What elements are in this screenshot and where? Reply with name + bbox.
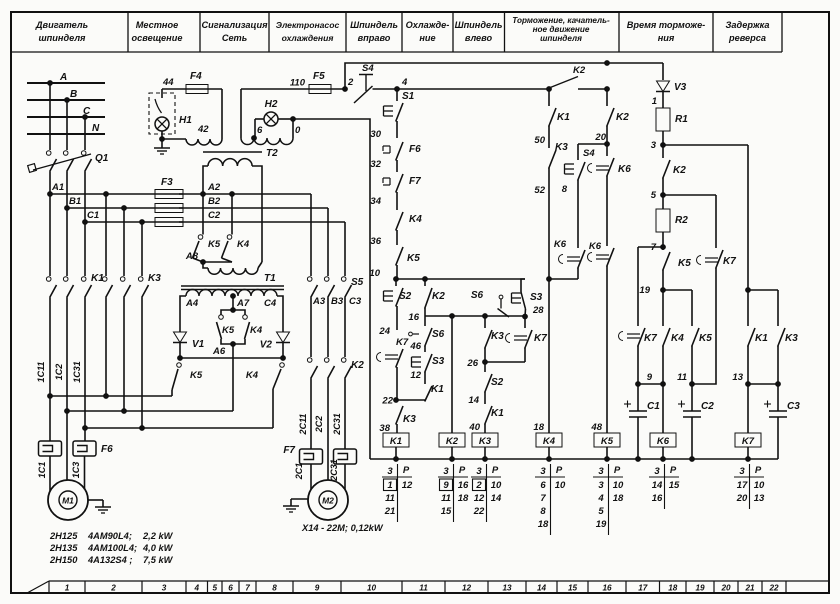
svg-text:P: P (614, 465, 621, 476)
wire to heater 2 (84, 428, 86, 441)
contact K2 timer (662, 145, 664, 158)
svg-text:V1: V1 (192, 339, 205, 350)
bus A1 (50, 193, 183, 195)
contact S2 start (383, 291, 385, 301)
svg-text:влево: влево (465, 33, 493, 43)
svg-text:вправо: вправо (358, 33, 391, 43)
svg-text:K4: K4 (409, 214, 422, 225)
svg-text:22: 22 (381, 396, 393, 407)
contact S2 cooling stop (484, 362, 486, 372)
node K4 feed (547, 277, 552, 282)
node H1 bottom (160, 137, 165, 142)
svg-text:18: 18 (538, 519, 549, 530)
svg-text:3: 3 (387, 466, 393, 477)
svg-text:14: 14 (537, 584, 547, 593)
svg-text:4АМ100L4;: 4АМ100L4; (87, 543, 137, 553)
svg-text:11: 11 (441, 493, 451, 504)
svg-text:22: 22 (768, 584, 779, 593)
svg-text:16: 16 (408, 312, 419, 323)
wire into lamp box (161, 89, 163, 98)
svg-text:K2: K2 (616, 112, 629, 123)
svg-text:C4: C4 (264, 298, 277, 309)
contact K4 timer (662, 290, 664, 326)
svg-text:охлаждения: охлаждения (282, 33, 334, 43)
top control bus (345, 63, 663, 89)
svg-text:8: 8 (562, 184, 568, 195)
svg-text:T2: T2 (266, 148, 278, 159)
svg-text:18: 18 (533, 422, 544, 433)
svg-text:F4: F4 (190, 71, 202, 82)
svg-text:K6: K6 (657, 436, 670, 447)
lamp H1 (155, 117, 169, 131)
svg-text:K2: K2 (446, 436, 459, 447)
contact F7 release (383, 177, 390, 179)
svg-text:1С31: 1С31 (72, 361, 82, 383)
svg-text:B2: B2 (208, 196, 221, 207)
contact K1 brake chain (548, 89, 550, 106)
svg-text:Задержка: Задержка (726, 20, 770, 30)
wire K3-A drop (105, 194, 107, 276)
svg-text:K4: K4 (543, 436, 556, 447)
contactor K2 poles (307, 358, 312, 363)
svg-text:2,2 kW: 2,2 kW (142, 531, 174, 541)
motor M2 (308, 480, 348, 520)
svg-text:K3: K3 (479, 436, 492, 447)
bus C1 (85, 221, 183, 223)
svg-text:K3: K3 (403, 414, 416, 425)
svg-text:6: 6 (540, 480, 546, 491)
svg-text:Торможение, качатель-: Торможение, качатель- (512, 16, 610, 25)
svg-text:48: 48 (590, 422, 602, 433)
svg-text:Сеть: Сеть (222, 33, 247, 43)
svg-text:K3: K3 (491, 331, 504, 342)
svg-text:Шпиндель: Шпиндель (455, 20, 503, 30)
transformer T2 winding 42 (186, 139, 222, 145)
resistor R1 (656, 108, 670, 131)
svg-text:4,0 kW: 4,0 kW (142, 543, 174, 553)
wire K1-C drop (84, 222, 86, 276)
svg-text:C1: C1 (87, 210, 99, 221)
svg-text:5: 5 (598, 506, 604, 517)
node 20 (605, 142, 610, 147)
svg-text:K3: K3 (785, 333, 798, 344)
svg-text:14: 14 (652, 480, 663, 491)
svg-text:P: P (556, 465, 563, 476)
svg-text:A7: A7 (236, 298, 250, 309)
phase line C (27, 116, 105, 118)
svg-text:11: 11 (385, 493, 395, 504)
wire node 7 branch (638, 246, 663, 248)
svg-text:B: B (70, 89, 77, 100)
svg-text:19: 19 (596, 519, 607, 530)
svg-text:V3: V3 (674, 82, 687, 93)
node 7 (661, 245, 666, 250)
svg-text:S4: S4 (583, 148, 595, 159)
svg-text:F7: F7 (409, 176, 421, 187)
svg-text:1С3: 1С3 (71, 462, 81, 479)
wire line 10 (396, 278, 525, 280)
svg-text:P: P (755, 465, 762, 476)
ground H1 (161, 139, 163, 148)
svg-text:F5: F5 (313, 71, 325, 82)
node A7 centre tap (231, 294, 236, 299)
contact S4 aux (564, 164, 566, 174)
svg-text:S6: S6 (471, 290, 484, 301)
wire top bus corner (662, 63, 664, 80)
svg-text:3: 3 (654, 466, 660, 477)
svg-text:C1: C1 (647, 401, 660, 412)
wire node 3 branch (663, 144, 748, 146)
overload heater F6 element 1 (39, 441, 62, 456)
svg-text:Х14 - 22М; 0,12kW: Х14 - 22М; 0,12kW (301, 523, 384, 533)
capacitor C1 (629, 410, 647, 412)
bottom common bus (370, 458, 778, 460)
svg-text:8: 8 (272, 584, 277, 593)
node B tap (65, 98, 70, 103)
diode V1 (174, 332, 187, 343)
svg-text:K7: K7 (723, 256, 736, 267)
contact K4 selector (227, 235, 232, 240)
node 19 (661, 288, 666, 293)
svg-text:F7: F7 (283, 445, 295, 456)
svg-text:1: 1 (387, 480, 392, 491)
wire C2 to S5 (344, 222, 346, 276)
svg-text:4А132S4 ;: 4А132S4 ; (87, 555, 132, 565)
svg-text:K6: K6 (554, 239, 567, 250)
svg-text:16: 16 (458, 480, 469, 491)
svg-text:S5: S5 (351, 277, 364, 288)
svg-text:21: 21 (384, 506, 396, 517)
contact K7 timer (619, 332, 624, 341)
overload heater F6 element 2 (73, 441, 96, 456)
fuse F4 (186, 85, 208, 94)
contact K4 tap select (233, 310, 245, 315)
contact F6 release (383, 145, 390, 147)
wire heater 2 to M1 (84, 456, 86, 490)
svg-text:S4: S4 (362, 63, 374, 74)
contact K5 aux (396, 247, 403, 266)
svg-text:3: 3 (443, 466, 449, 477)
contact S6 stop lower (409, 332, 413, 336)
svg-text:K1: K1 (390, 436, 402, 447)
svg-text:3: 3 (598, 480, 604, 491)
svg-text:11: 11 (677, 372, 687, 383)
svg-text:18: 18 (613, 493, 624, 504)
svg-text:12: 12 (402, 480, 413, 491)
node A tap (48, 81, 53, 86)
contact K7 aux spindle (377, 353, 382, 362)
fuse F5 (309, 85, 331, 94)
svg-text:Местное: Местное (136, 20, 178, 30)
contact K3 reverse (778, 328, 785, 347)
svg-text:17: 17 (737, 480, 748, 491)
svg-text:13: 13 (732, 372, 743, 383)
contact K3 interlock (396, 406, 403, 425)
wire R1 to node 3 (662, 131, 664, 145)
transformer T1 primary (208, 268, 258, 274)
contact S1 (383, 106, 385, 116)
svg-text:P: P (670, 465, 677, 476)
svg-text:K7: K7 (534, 333, 547, 344)
wire node 5 branch (663, 194, 716, 196)
wire K6 coil drop (662, 384, 664, 433)
svg-text:K5: K5 (678, 258, 691, 269)
node 4 (395, 87, 400, 92)
contact S3 jog (411, 357, 413, 367)
svg-text:K6: K6 (589, 241, 602, 252)
svg-text:2С11: 2С11 (298, 414, 308, 436)
svg-text:S6: S6 (432, 329, 445, 340)
svg-text:R2: R2 (675, 215, 688, 226)
svg-text:A8: A8 (185, 251, 199, 262)
svg-text:2Н150: 2Н150 (49, 555, 78, 565)
svg-text:C3: C3 (787, 401, 800, 412)
svg-text:17: 17 (638, 584, 648, 593)
wire B2 to S5 (327, 208, 329, 276)
svg-text:10: 10 (367, 584, 377, 593)
overload heater F7 element 1 (300, 449, 323, 464)
svg-text:2С31: 2С31 (329, 459, 339, 482)
svg-text:10: 10 (754, 480, 765, 491)
contact K4 braking (280, 363, 285, 368)
contact K3 brake chain (549, 150, 556, 169)
svg-text:3: 3 (540, 466, 546, 477)
svg-text:K5: K5 (699, 333, 712, 344)
wire coil K4 to bus (548, 447, 550, 459)
contact K6 left (559, 255, 564, 264)
svg-text:M2: M2 (322, 496, 334, 506)
svg-text:36: 36 (370, 236, 381, 247)
svg-text:H2: H2 (265, 99, 278, 110)
svg-text:10: 10 (369, 268, 380, 279)
svg-text:K7: K7 (644, 333, 657, 344)
svg-text:13: 13 (754, 493, 765, 504)
svg-text:K3: K3 (555, 142, 568, 153)
svg-text:40: 40 (468, 422, 480, 433)
svg-text:шпинделя: шпинделя (540, 34, 582, 43)
main switch Q1 (46, 151, 51, 156)
overload heater F7 element 2 (334, 449, 357, 464)
wire to heater 1 (49, 396, 51, 441)
svg-text:K5: K5 (190, 370, 203, 381)
relay coil K7 (735, 433, 761, 447)
svg-text:K5: K5 (601, 436, 614, 447)
node 10 (394, 277, 399, 282)
svg-text:5: 5 (651, 190, 657, 201)
svg-text:реверса: реверса (728, 33, 766, 43)
svg-text:1: 1 (652, 96, 657, 107)
fuse block F3 (155, 190, 183, 199)
svg-text:6: 6 (257, 125, 263, 136)
svg-text:46: 46 (409, 341, 421, 352)
svg-text:S1: S1 (402, 91, 415, 102)
line 16 (425, 315, 525, 317)
wires K2 to heaters (310, 379, 312, 450)
svg-text:50: 50 (534, 135, 545, 146)
phase line A (27, 82, 105, 84)
wire coil K1 to bus (395, 447, 397, 459)
svg-text:26: 26 (466, 358, 478, 369)
diode V2 (277, 332, 290, 343)
svg-text:M1: M1 (62, 496, 74, 506)
phase line B (27, 99, 105, 101)
node 26 (483, 360, 488, 365)
wire common 0 rail (293, 119, 370, 459)
svg-text:34: 34 (370, 196, 381, 207)
wire coil K7 to bus (747, 447, 749, 459)
transformer T2 primary (208, 159, 252, 166)
node 13 (746, 382, 751, 387)
bottom zone-number strip (49, 580, 829, 582)
svg-text:A3: A3 (312, 296, 326, 307)
svg-text:P: P (459, 465, 466, 476)
transformer T2 winding 6-0 (241, 138, 293, 145)
svg-text:H1: H1 (179, 115, 192, 126)
svg-text:ния: ния (658, 33, 675, 43)
node 13 feed (746, 288, 751, 293)
capacitor C2 (683, 410, 701, 412)
svg-text:18: 18 (668, 584, 678, 593)
svg-text:A1: A1 (51, 182, 64, 193)
wire F4 to winding 42 (221, 89, 223, 139)
svg-text:19: 19 (695, 584, 705, 593)
wire coil K6 to bus (662, 447, 664, 459)
svg-text:24: 24 (378, 326, 390, 337)
wire C4 to diode V2 (282, 302, 284, 332)
wire 44 (162, 88, 222, 90)
bus C2 (179, 221, 345, 223)
contact K7 charge (697, 256, 701, 265)
svg-text:28: 28 (532, 305, 544, 316)
wire A6 (179, 343, 181, 359)
svg-text:9: 9 (443, 480, 449, 491)
lamp switch blade (155, 99, 162, 113)
svg-text:A6: A6 (212, 346, 226, 357)
svg-text:K4: K4 (246, 370, 259, 381)
svg-text:30: 30 (370, 129, 381, 140)
contactor K3 poles (102, 277, 107, 282)
svg-text:7: 7 (245, 584, 250, 593)
resistor R2 (656, 209, 670, 232)
contact K1 interlock (425, 386, 432, 402)
svg-text:K2: K2 (432, 291, 445, 302)
svg-text:K5: K5 (407, 253, 420, 264)
svg-text:3: 3 (651, 140, 657, 151)
contact K5 braking (177, 363, 182, 368)
svg-text:A4: A4 (185, 298, 199, 309)
svg-text:S3: S3 (432, 356, 445, 367)
svg-text:B3: B3 (331, 296, 344, 307)
relay coil K6 (650, 433, 676, 447)
contact K2 aux seal (424, 279, 426, 286)
svg-text:19: 19 (639, 285, 650, 296)
wire node4 to K2 (397, 88, 549, 90)
svg-text:32: 32 (370, 159, 381, 170)
svg-text:14: 14 (491, 493, 502, 504)
node 6 tap (252, 136, 257, 141)
svg-text:Q1: Q1 (95, 153, 109, 164)
relay coil K2 (439, 433, 465, 447)
contact K6 right lower (588, 253, 593, 262)
wire 26 to K7 brake (485, 361, 525, 363)
contactor K1 poles (46, 277, 51, 282)
svg-text:A: A (59, 72, 67, 83)
neutral line N (27, 133, 105, 135)
svg-text:1: 1 (65, 584, 70, 593)
svg-text:Электронасос: Электронасос (276, 20, 340, 30)
svg-text:11: 11 (419, 584, 428, 593)
header column lines (127, 12, 129, 52)
contact K6 right upper (606, 144, 608, 156)
svg-text:20: 20 (736, 493, 748, 504)
svg-text:Шпиндель: Шпиндель (350, 20, 398, 30)
svg-text:14: 14 (468, 395, 479, 406)
svg-text:K5: K5 (208, 239, 221, 250)
relay coil K5 (594, 433, 620, 447)
svg-text:K4: K4 (250, 325, 263, 336)
svg-text:K2: K2 (573, 65, 586, 76)
bus B1 (67, 207, 183, 209)
svg-text:V2: V2 (260, 340, 273, 351)
wire Q1-A to bus A1 (49, 172, 51, 195)
wire crossover C (85, 427, 273, 429)
switch S5 poles (307, 277, 312, 282)
svg-text:S3: S3 (530, 292, 543, 303)
node 5 (661, 193, 666, 198)
node 3 (661, 143, 666, 148)
svg-text:38: 38 (379, 423, 390, 434)
relay coil K1 (383, 433, 409, 447)
svg-text:20: 20 (720, 584, 731, 593)
line 9 (636, 382, 641, 387)
svg-text:44: 44 (162, 77, 174, 88)
lamp switch dashed box (149, 93, 175, 134)
svg-text:ное движение: ное движение (533, 25, 590, 34)
svg-text:K2: K2 (351, 360, 364, 371)
svg-text:K7: K7 (396, 337, 409, 348)
svg-text:C3: C3 (349, 296, 362, 307)
wire node 19 branch (663, 289, 692, 291)
svg-text:K6: K6 (618, 164, 631, 175)
wire lamp H2 to node 0 (279, 118, 294, 120)
svg-text:K1: K1 (491, 408, 504, 419)
svg-text:S2: S2 (399, 291, 412, 302)
svg-text:9: 9 (315, 584, 320, 593)
contact K5 selector (198, 235, 203, 240)
svg-text:K7: K7 (742, 436, 755, 447)
svg-text:Двигатель: Двигатель (35, 20, 88, 30)
capacitor C3 (769, 410, 787, 412)
contact K5 discharge (692, 328, 699, 347)
wire Q1-B to bus B1 (66, 172, 68, 209)
svg-text:13: 13 (502, 584, 512, 593)
svg-text:F6: F6 (101, 444, 113, 455)
svg-text:F3: F3 (161, 177, 173, 188)
contact K5 timer (663, 252, 670, 271)
contact K2 time rail (606, 89, 608, 106)
svg-text:2С1: 2С1 (294, 463, 304, 481)
lamp H2 (264, 112, 278, 126)
svg-text:1С11: 1С11 (36, 362, 46, 383)
svg-text:K1: K1 (431, 384, 444, 395)
svg-text:21: 21 (744, 584, 755, 593)
transformer T1 secondary (186, 290, 277, 297)
svg-text:15: 15 (669, 480, 680, 491)
contact S6 push (499, 295, 503, 299)
svg-text:K1: K1 (557, 112, 570, 123)
wire heater 1 to M1 (49, 456, 51, 491)
svg-text:9: 9 (647, 372, 653, 383)
